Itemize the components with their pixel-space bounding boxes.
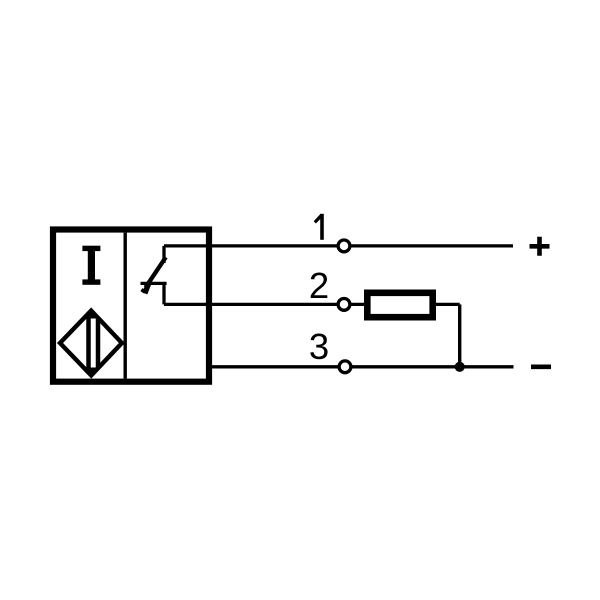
terminal 2 xyxy=(338,299,350,311)
diamond inner bar left xyxy=(86,310,91,376)
switch lower stub xyxy=(162,283,165,304)
internal divider xyxy=(123,233,126,379)
inductive symbol I : bottom bar xyxy=(82,279,100,284)
switch upper stub xyxy=(162,246,165,263)
load resistor xyxy=(367,293,432,317)
sensor body outline xyxy=(53,230,209,382)
diamond top tip fill xyxy=(84,311,99,319)
terminal 3 xyxy=(339,361,351,373)
wire 1 xyxy=(164,244,513,247)
inductive symbol I : top bar xyxy=(82,246,100,251)
switch arm tail xyxy=(145,284,149,294)
svg-text:3: 3 xyxy=(309,326,329,367)
minus sign xyxy=(531,364,551,369)
vertical wire to node xyxy=(458,304,461,366)
svg-text:2: 2 xyxy=(309,265,329,306)
switch seat xyxy=(141,282,167,285)
switch arm hook xyxy=(141,290,145,293)
inductive symbol I : stem xyxy=(88,249,95,282)
junction node xyxy=(455,362,465,372)
switch arm xyxy=(146,257,166,287)
terminal 1 xyxy=(338,240,350,252)
plus sign xyxy=(530,237,550,256)
label 1 xyxy=(320,214,324,240)
diamond bottom tip fill xyxy=(84,368,99,376)
diamond inner bar right xyxy=(96,310,101,376)
wire 2 xyxy=(164,303,364,306)
wire 3 xyxy=(209,365,514,368)
wire resistor to corner xyxy=(436,303,460,306)
